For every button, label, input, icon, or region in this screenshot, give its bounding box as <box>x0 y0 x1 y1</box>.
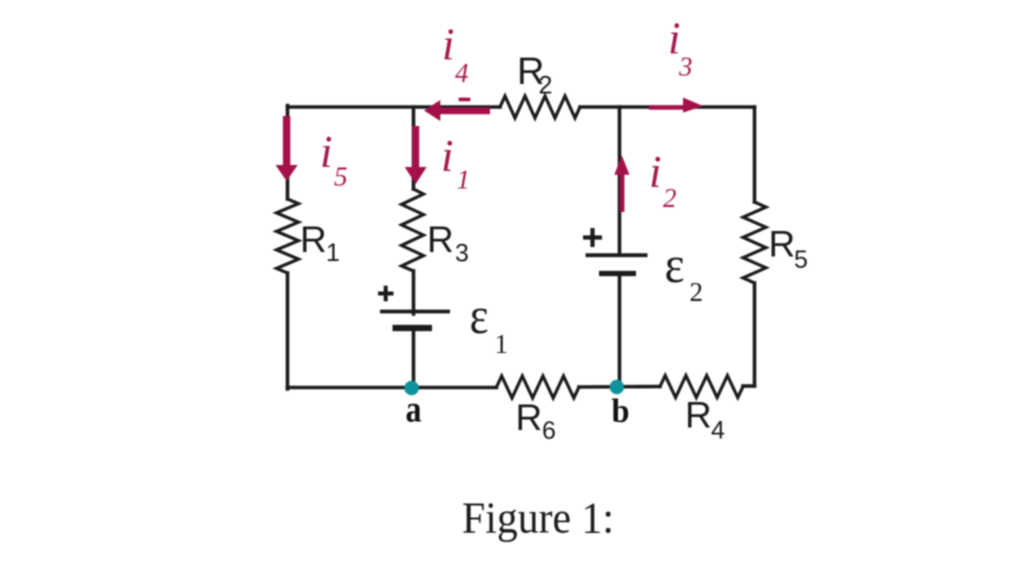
svg-text:3: 3 <box>678 52 693 82</box>
svg-text:Figure 1:: Figure 1: <box>462 494 614 543</box>
svg-text:R: R <box>427 219 454 260</box>
svg-text:4: 4 <box>711 417 725 445</box>
svg-text:R: R <box>685 395 712 436</box>
svg-text:ε: ε <box>665 237 685 294</box>
svg-text:ε: ε <box>470 288 489 345</box>
svg-text:a: a <box>406 389 422 431</box>
svg-text:i: i <box>442 20 455 70</box>
svg-text:1: 1 <box>495 329 509 359</box>
svg-text:i: i <box>649 147 662 197</box>
svg-text:5: 5 <box>334 162 348 192</box>
svg-text:5: 5 <box>794 246 808 274</box>
svg-text:i: i <box>441 131 454 181</box>
svg-text:1: 1 <box>457 165 471 195</box>
svg-text:b: b <box>612 393 630 430</box>
svg-text:2: 2 <box>690 277 704 307</box>
svg-text:R: R <box>300 219 327 260</box>
svg-text:2: 2 <box>663 183 677 213</box>
svg-text:3: 3 <box>455 240 469 268</box>
svg-text:R: R <box>769 224 796 265</box>
svg-text:2: 2 <box>539 72 553 100</box>
svg-text:i: i <box>320 127 333 177</box>
svg-text:R: R <box>516 397 543 438</box>
svg-text:6: 6 <box>542 417 556 445</box>
svg-text:4: 4 <box>455 58 469 88</box>
svg-text:1: 1 <box>326 239 340 267</box>
